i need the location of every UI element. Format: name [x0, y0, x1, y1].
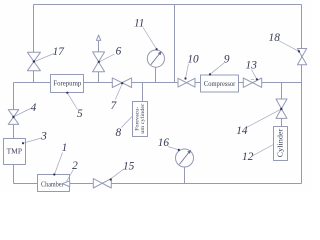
junction dot valve 7 [121, 82, 123, 84]
vent arrowhead above valve 6 [96, 35, 100, 40]
junction dot gauge 11 [156, 48, 158, 50]
gauge 11 [147, 50, 164, 67]
leader line label 10 [186, 64, 189, 79]
leader line label 12 [253, 145, 273, 156]
junction dot valve 13 [256, 78, 258, 80]
svg-text:14: 14 [236, 125, 248, 137]
junction dot gauge 16 [178, 149, 180, 151]
compressor box [201, 75, 239, 92]
svg-text:6: 6 [116, 45, 122, 57]
leader line label 7 [115, 84, 122, 100]
valve 18 [297, 49, 306, 65]
svg-text:15: 15 [123, 160, 135, 172]
wire main line y=82.5 [14, 82, 302, 84]
wire bottom line y=183 [14, 183, 302, 185]
svg-text:11: 11 [134, 17, 144, 29]
wire top border [34, 4, 302, 6]
forepump box [51, 75, 84, 93]
wire vent branch to valve 6 [98, 41, 100, 83]
valve 7 [112, 78, 131, 88]
leader line label 13 [252, 70, 257, 79]
junction dot forepump leader [66, 92, 68, 94]
wire left drop x=13.4 (main line to bottom line) [13, 83, 15, 184]
leader line label 3 [23, 138, 41, 143]
leader line label 14 [247, 109, 282, 127]
svg-text:TMP: TMP [7, 147, 22, 156]
wire branch to forevacuum cylinder [142, 83, 144, 102]
svg-text:16: 16 [158, 137, 170, 149]
svg-text:4: 4 [31, 102, 37, 114]
svg-text:3: 3 [40, 130, 47, 142]
leader line label 11 [143, 28, 157, 50]
junction dot compressor leader [209, 73, 211, 75]
junction dot valve 14 [280, 108, 282, 110]
junction dot valve 6 [98, 61, 100, 63]
cylinder box [274, 127, 288, 161]
valve 13 [243, 78, 261, 87]
svg-text:18: 18 [269, 32, 281, 44]
valve 17 [27, 52, 40, 70]
svg-text:2: 2 [72, 160, 78, 172]
wire mid riser x=174 (top border to main line) [174, 5, 176, 83]
svg-text:8: 8 [115, 127, 121, 139]
svg-text:Cylinder: Cylinder [276, 128, 284, 157]
leader line label 9 [210, 63, 224, 74]
wire stem of gauge 11 [155, 67, 157, 83]
leader line label 2 [67, 170, 74, 182]
leader line label 15 [110, 169, 124, 180]
gauge 16 [176, 149, 194, 167]
svg-text:12: 12 [242, 151, 254, 163]
valve 6 vent valve [93, 52, 105, 72]
inlet arrow in chamber (item 2) [62, 181, 69, 187]
wire right border [301, 5, 303, 184]
svg-text:5: 5 [77, 108, 83, 120]
leader line label 1 [55, 153, 63, 175]
svg-text:13: 13 [246, 60, 258, 72]
junction dot valve 4 [12, 116, 14, 118]
wire stem of gauge 16 [184, 167, 186, 184]
wire left riser x=33 (top border to main line) [33, 5, 35, 83]
leader line label 5 [67, 93, 77, 110]
valve 14 [276, 99, 287, 118]
wire branch to valve 14 and cylinder [281, 83, 283, 127]
handle tick on valve 13 [251, 78, 254, 80]
svg-text:Forepump: Forepump [53, 79, 81, 88]
svg-text:9: 9 [224, 53, 230, 65]
forevacuum cylinder box [133, 102, 148, 137]
chamber box [38, 175, 70, 192]
label Forevacuum cylinder (rotated, 2 lines) [134, 104, 146, 134]
valve 10 [178, 78, 195, 87]
svg-text:1: 1 [62, 142, 68, 154]
svg-text:10: 10 [187, 54, 199, 66]
leader line label 6 [99, 54, 114, 62]
svg-text:Compressor: Compressor [204, 79, 236, 88]
svg-text:7: 7 [111, 100, 118, 112]
junction dot TMP leader [22, 142, 24, 144]
leader line label 18 [279, 41, 299, 52]
leader line label 8 [121, 116, 132, 128]
svg-text:Chamber: Chamber [41, 180, 64, 188]
leader line label 16 [168, 147, 179, 150]
svg-text:um cylinder: um cylinder [140, 104, 146, 134]
valve 4 [8, 110, 19, 125]
junction dot valve 15 [110, 178, 112, 180]
leader line label 17 [35, 54, 54, 62]
TMP box [4, 139, 26, 165]
leader line label 4 [14, 109, 31, 117]
junction dot valve 18 [298, 50, 300, 52]
valve 15 [93, 179, 111, 188]
junction dot valve 17 [33, 60, 35, 62]
junction dot chamber leader [53, 173, 55, 175]
needle of gauge 11 [151, 52, 161, 65]
junction dot valve 10 [184, 77, 186, 79]
svg-text:17: 17 [53, 46, 66, 58]
needle of gauge 16 [179, 151, 190, 165]
